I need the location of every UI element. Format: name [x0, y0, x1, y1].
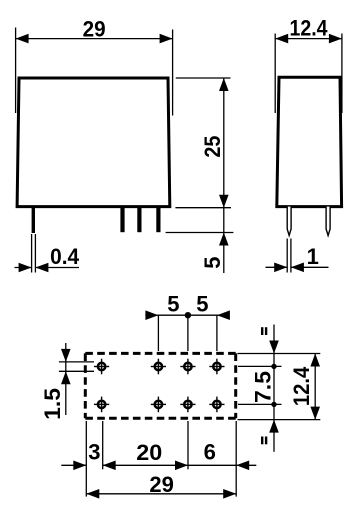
dimension 1: right tail	[291, 266, 329, 268]
dimension 1.5: extension lines	[59, 362, 94, 371]
dimension 5: arrowhead	[219, 233, 229, 246]
dimension 29 bottom: right arrowhead	[223, 489, 236, 499]
dimension 3: left arrowhead	[73, 461, 86, 471]
svg-text:5: 5	[200, 256, 225, 268]
side view body	[277, 77, 342, 206]
svg-text:1: 1	[307, 244, 319, 269]
svg-text:3: 3	[88, 439, 100, 464]
footprint dashed outline	[85, 353, 235, 418]
footprint right extension line top hole row	[238, 365, 282, 367]
svg-text:29: 29	[149, 472, 174, 497]
dimension 29 top: extension lines	[16, 28, 173, 116]
dimension 29 top: left arrowhead	[16, 34, 29, 44]
svg-text:5: 5	[196, 292, 208, 317]
hole A1	[94, 359, 109, 375]
dimension 1: left tail	[266, 266, 288, 268]
dimension 20: label	[136, 440, 162, 465]
dimension 1: extension lines	[287, 239, 291, 273]
dimension 1.5: up arrowhead	[61, 371, 71, 384]
dimension 5-5: label left	[167, 292, 179, 317]
dimension 3: left tail	[61, 464, 86, 466]
dimension 1: right arrowhead	[291, 263, 304, 273]
dimension 25/5: extension line at pin bottom	[166, 232, 234, 234]
footprint bottom extension line right edge	[235, 421, 237, 497]
front view pin 2 of right group	[137, 206, 141, 232]
dimension 1: left arrowhead	[274, 263, 287, 273]
svg-text:20: 20	[136, 440, 162, 465]
front view body	[17, 78, 170, 207]
dimension 12.4 right: label	[289, 366, 314, 406]
svg-text:6: 6	[204, 439, 216, 464]
dimension 0.4: left arrowhead	[19, 263, 32, 273]
dimension 12.4 right: down arrowhead	[310, 407, 320, 420]
dimension 0.4: right tail	[35, 267, 79, 269]
hole A2	[151, 359, 166, 375]
footprint bottom extension line col3	[187, 421, 189, 469]
svg-text:12.4: 12.4	[289, 366, 314, 406]
footprint right extension line bottom edge	[238, 419, 321, 421]
svg-text:29: 29	[83, 16, 106, 41]
svg-text:0.4: 0.4	[50, 244, 80, 269]
front view pin left	[32, 206, 35, 233]
front view pin 3 of right group	[156, 206, 160, 232]
dimension 29 bottom: left arrowhead	[86, 489, 99, 499]
dimension 5-5: left arrowhead	[145, 310, 158, 320]
dimension 29 top: right arrowhead	[160, 34, 173, 44]
dimension 29 top: dimension line	[16, 38, 173, 40]
svg-text:5: 5	[167, 292, 179, 317]
dimension 5-5: label right	[196, 292, 208, 317]
dimension 5-5: right arrowhead	[217, 310, 230, 320]
dimension 7.5: up arrowhead	[269, 420, 279, 433]
hole B3	[180, 397, 195, 413]
dimension 5-5: extension lines	[158, 315, 217, 351]
footprint bottom extension line left edge	[85, 421, 87, 497]
dimension 20: left arrowhead	[103, 461, 116, 471]
svg-text:7.5: 7.5	[250, 371, 275, 403]
svg-text:25: 25	[200, 136, 225, 158]
hole A3	[180, 359, 195, 375]
dimension 6: right arrowhead	[236, 461, 249, 471]
dimension 20: right arrowhead	[175, 461, 188, 471]
dimension 12.4 right: dimension line	[314, 354, 316, 420]
svg-text:12.4: 12.4	[290, 16, 329, 41]
dimension 0.4: label	[50, 244, 80, 269]
dimension 0.4: left tail	[15, 267, 32, 269]
dimension 29 top: label	[83, 16, 106, 41]
footprint right extension line bottom hole row	[238, 403, 282, 405]
dimension 25/5: dimension line	[223, 78, 225, 273]
dimension 12.4 top: left arrowhead	[275, 34, 288, 44]
dimension 7.5: down arrowhead	[269, 341, 279, 354]
dimension 20/6: dimension line	[103, 464, 237, 466]
hole B4	[209, 397, 224, 413]
hole B2	[151, 397, 166, 413]
dimension 5-5: middle dot	[185, 312, 191, 318]
svg-text:1.5: 1.5	[40, 388, 65, 420]
dimension 1.5: down arrowhead	[61, 349, 71, 362]
dimension 1.5: label	[40, 388, 65, 420]
dimension 6: right tail	[236, 464, 256, 466]
dimension 12.4 top: dimension line	[275, 38, 342, 40]
dimension 7.5: label	[250, 371, 275, 403]
equals mark top	[262, 327, 266, 335]
front view pin 1 of right group	[120, 206, 124, 232]
dimension 12.4 top: right arrowhead	[329, 34, 342, 44]
equals mark bottom	[262, 437, 266, 445]
dimension 29 bottom: dimension line	[86, 493, 236, 495]
dimension 5: label	[200, 256, 225, 268]
hole A4	[209, 359, 224, 375]
dimension 25: bottom arrowhead	[219, 195, 229, 208]
footprint bottom extension line col1	[102, 421, 104, 469]
dimension 6: label	[204, 439, 216, 464]
dimension 29 bottom: label	[149, 472, 174, 497]
dimension 25/5: extension line at body bottom	[175, 207, 231, 209]
footprint right extension line top edge	[238, 353, 321, 355]
dimension 7.5: dimension line	[273, 325, 275, 452]
dimension 7.5: top dot	[271, 364, 276, 369]
side view pin right	[326, 207, 330, 236]
dimension 25: label	[200, 136, 225, 158]
dimension 5-5: dimension line	[145, 314, 229, 316]
dimension 12.4 top: extension lines	[275, 34, 342, 114]
dimension 25/5: extension line at body top	[176, 77, 231, 79]
hole B1	[94, 397, 109, 413]
dimension 12.4 right: up arrowhead	[310, 354, 320, 367]
dimension 12.4 top: label	[290, 16, 329, 41]
dimension 3: label	[88, 439, 100, 464]
dimension 0.4: extension lines	[32, 234, 36, 273]
side view pin left	[287, 207, 291, 236]
dimension 0.4: right arrowhead	[35, 263, 48, 273]
dimension 25: top arrowhead	[219, 78, 229, 91]
dimension 1: label	[307, 244, 319, 269]
dimension 7.5: bottom dot	[271, 402, 276, 407]
dimension 1.5: dimension line	[65, 343, 67, 415]
